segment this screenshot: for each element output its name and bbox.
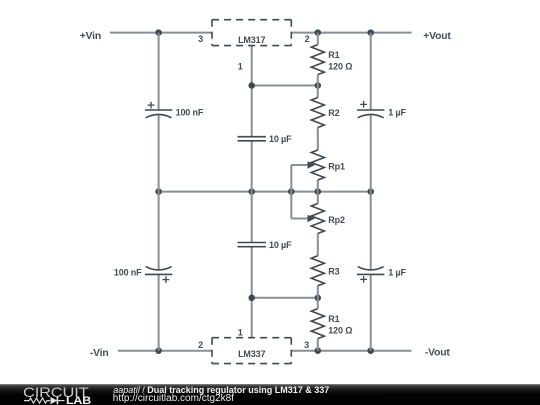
wire right column upper-2 (370, 114, 372, 191)
potentiometer Rp1 (311, 150, 324, 180)
plus mark C6 (360, 276, 367, 283)
pin 3 LM337 (304, 340, 309, 350)
potentiometer Rp2 (311, 204, 324, 234)
wire -Vin to LM337 pin 2 (118, 350, 212, 352)
pin 1 LM317 (238, 61, 243, 71)
op-amp U1 LM317 (dashed body) (212, 20, 291, 46)
wire right column upper (370, 33, 372, 110)
svg-text:+Vout: +Vout (423, 31, 451, 42)
value 10 uF bottom (269, 240, 292, 250)
wire left column lower (158, 192, 160, 269)
label R1 bottom (328, 314, 339, 324)
wire right column lower-2 (370, 274, 372, 350)
wire LM337 pin 3 to -Vout (291, 350, 411, 352)
node mid-left junction (155, 188, 162, 195)
svg-text:120 Ω: 120 Ω (328, 325, 352, 335)
node adj link top right (315, 82, 322, 89)
pin 3 LM317 (198, 34, 203, 44)
value 1 uF bottom (388, 267, 406, 277)
node +Vin / C_in+ junction (155, 29, 162, 36)
resistor R1 (top) (311, 45, 324, 75)
pin 2 LM317 (305, 34, 310, 44)
label R1 top (328, 50, 339, 60)
wire pin1 column lower (251, 192, 253, 243)
value 120 ohm top (328, 61, 352, 71)
footer title line (113, 385, 329, 395)
wire LM317 pin 2 to +Vout (291, 32, 411, 34)
op-amp U2 LM337 (dashed body) (212, 338, 291, 364)
resistor R1 (bottom) (311, 309, 324, 339)
capacitor C5 1uF top-right (357, 110, 384, 118)
wire left column upper (158, 33, 160, 110)
node mid wiper-column junction (288, 188, 295, 195)
svg-text:R1: R1 (328, 314, 339, 324)
svg-text:1 µF: 1 µF (388, 108, 406, 118)
wire left column upper-2 (158, 114, 160, 191)
logo CIRCUIT text (23, 384, 89, 400)
capacitor C1 100nF top-left (145, 110, 172, 118)
svg-text:1 µF: 1 µF (388, 267, 406, 277)
svg-text:100 nF: 100 nF (114, 267, 142, 277)
svg-text:10 µF: 10 µF (269, 134, 292, 144)
plus mark C5 (360, 101, 367, 108)
svg-text:-Vout: -Vout (425, 348, 451, 359)
wiper arrow Rp2 (291, 215, 315, 222)
label LM317 (238, 35, 265, 45)
label Rp2 (328, 215, 345, 225)
node -Vin terminal (90, 348, 109, 359)
svg-text:http://circuitlab.com/ctg2k8f: http://circuitlab.com/ctg2k8f (113, 393, 234, 404)
wire adj link bottom (252, 297, 318, 299)
node mid pot junction (315, 188, 322, 195)
wire wiper column (290, 165, 292, 219)
node -Vout terminal (425, 348, 451, 359)
label Rp1 (328, 162, 345, 172)
node mid-right junction (367, 188, 374, 195)
node -Vin / C_in- junction (155, 347, 162, 354)
capacitor C6 1uF bottom-right (357, 267, 384, 275)
label R3 (328, 266, 339, 276)
wire center column segs (317, 33, 319, 351)
label R2 (328, 108, 339, 118)
svg-text:2: 2 (198, 340, 203, 350)
plus mark C1 (148, 102, 155, 109)
svg-text:R1: R1 (328, 50, 339, 60)
svg-text:LAB: LAB (66, 395, 91, 405)
node R1b bottom junction (315, 347, 322, 354)
svg-text:3: 3 (304, 340, 309, 350)
svg-text:R3: R3 (328, 266, 339, 276)
label LM337 (238, 349, 265, 359)
node mid pin1-column junction (248, 188, 255, 195)
wire right column lower (370, 192, 372, 270)
node +Vout / C_out+ junction (367, 29, 374, 36)
logo LAB text (66, 395, 91, 405)
value 1 uF top (388, 108, 406, 118)
wire pin1 column lower-2 (251, 247, 253, 338)
footer bar (0, 384, 540, 405)
node adj link top left (248, 82, 255, 89)
wire left column lower-2 (158, 274, 160, 350)
value 100 nF bottom (114, 267, 142, 277)
capacitor C3 10uF top (238, 137, 266, 141)
node +Vin terminal (80, 31, 101, 42)
node adj link bottom right (315, 295, 322, 302)
pin 2 LM337 (198, 340, 203, 350)
wire mid rail (common node) (159, 191, 371, 193)
svg-text:+Vin: +Vin (80, 31, 101, 42)
resistor R2 (311, 98, 324, 128)
capacitor C4 10uF bottom (238, 243, 266, 247)
wiper arrow Rp1 (291, 161, 315, 168)
value 10 uF top (269, 134, 292, 144)
svg-text:10 µF: 10 µF (269, 240, 292, 250)
node +Vout terminal (423, 31, 451, 42)
capacitor C2 100nF bottom-left (145, 267, 172, 275)
plus mark C2 (163, 276, 170, 283)
svg-text:2: 2 (305, 34, 310, 44)
svg-text:120 Ω: 120 Ω (328, 61, 352, 71)
value 100 nF top (176, 108, 204, 118)
svg-text:3: 3 (198, 34, 203, 44)
logo resistor-diode glyph (24, 397, 65, 404)
footer url line (113, 393, 234, 404)
value 120 ohm bottom (328, 325, 352, 335)
pin 1 LM337 (238, 327, 243, 337)
svg-text:R2: R2 (328, 108, 339, 118)
svg-text:Rp2: Rp2 (328, 215, 345, 225)
wire +Vin to LM317 pin 3 (110, 32, 212, 34)
svg-text:1: 1 (238, 61, 243, 71)
svg-text:Rp1: Rp1 (328, 162, 345, 172)
node -Vout / C_out- junction (367, 347, 374, 354)
svg-text:-Vin: -Vin (90, 348, 109, 359)
svg-text:100 nF: 100 nF (176, 108, 204, 118)
svg-text:1: 1 (238, 327, 243, 337)
svg-text:LM317: LM317 (238, 35, 265, 45)
node R1 top junction (315, 29, 322, 36)
wire pin1 column upper (251, 46, 253, 137)
svg-text:LM337: LM337 (238, 349, 265, 359)
wire pin1 column upper-2 (251, 141, 253, 192)
resistor R3 (311, 256, 324, 286)
node adj link bottom left (248, 295, 255, 302)
wire adj link top (252, 85, 318, 87)
